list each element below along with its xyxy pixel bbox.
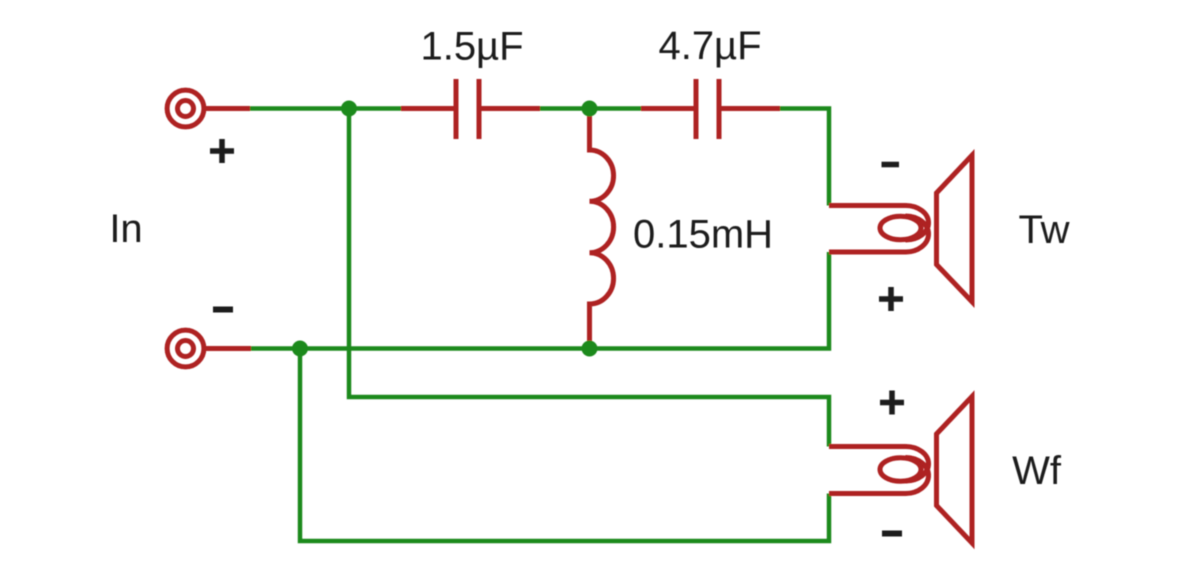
- speaker Tw (tweeter symbol): [829, 155, 972, 302]
- wire: vertical from top junction down and across to woofer plus pin: [349, 109, 829, 447]
- terminal J1 pin - (input, concentric circles): [167, 330, 204, 367]
- wire: C1 right lead (red): [479, 106, 540, 111]
- svg-text:4.7µF: 4.7µF: [658, 24, 761, 68]
- tweeter bottom lead with hook: [829, 216, 929, 252]
- svg-text:In: In: [109, 207, 142, 251]
- wire: green segment C2 to right corner and down to tweeter minus pin: [780, 109, 829, 206]
- woofer cone: [937, 397, 973, 544]
- polarity + at woofer top: [880, 391, 904, 415]
- woofer bottom lead with hook: [829, 458, 929, 494]
- polarity - at input bottom terminal: [213, 307, 233, 313]
- tweeter top lead with hook: [829, 206, 929, 241]
- junction node: bottom rail / woofer return: [292, 341, 308, 357]
- junction node: top rail / inductor top: [582, 101, 598, 117]
- polarity + at tweeter bottom: [879, 287, 903, 311]
- svg-text:Tw: Tw: [1018, 208, 1069, 252]
- woofer top lead with hook: [829, 447, 929, 482]
- polarity - at tweeter top: [882, 162, 900, 168]
- wire: from bottom rail junction down and across to woofer minus pin: [300, 349, 829, 542]
- svg-text:1.5µF: 1.5µF: [420, 25, 523, 69]
- polarity + at input top terminal: [210, 139, 234, 163]
- tweeter voice-coil oval: [880, 216, 921, 240]
- wire: C2 right lead (red): [719, 106, 780, 111]
- wire: bottom rail green + tweeter plus return: [251, 252, 829, 349]
- wire: input - stub (red): [204, 346, 251, 351]
- capacitor C2 plates (4.7uF): [696, 79, 719, 139]
- polarity - at woofer bottom: [882, 531, 902, 537]
- woofer voice-coil oval: [880, 458, 921, 482]
- inductor L1 (0.15mH) vertical coil: [590, 109, 614, 349]
- junction node: bottom rail / inductor bottom: [582, 341, 598, 357]
- wire: C1 left lead (red): [401, 106, 456, 111]
- tweeter cone: [937, 155, 973, 302]
- speaker Wf (woofer symbol): [829, 397, 972, 544]
- wire: input + stub (red): [204, 106, 250, 111]
- wire: top rail green segment terminal to C1: [250, 106, 401, 111]
- junction node: top rail / woofer feed: [341, 101, 357, 117]
- wire: C2 left lead (red): [641, 106, 696, 111]
- svg-text:0.15mH: 0.15mH: [633, 212, 773, 256]
- capacitor C1 plates (1.5uF): [456, 79, 479, 139]
- wire: green segment C1 to C2: [540, 106, 641, 111]
- svg-text:Wf: Wf: [1012, 449, 1062, 493]
- terminal J1 pin + (input, concentric circles): [167, 90, 204, 127]
